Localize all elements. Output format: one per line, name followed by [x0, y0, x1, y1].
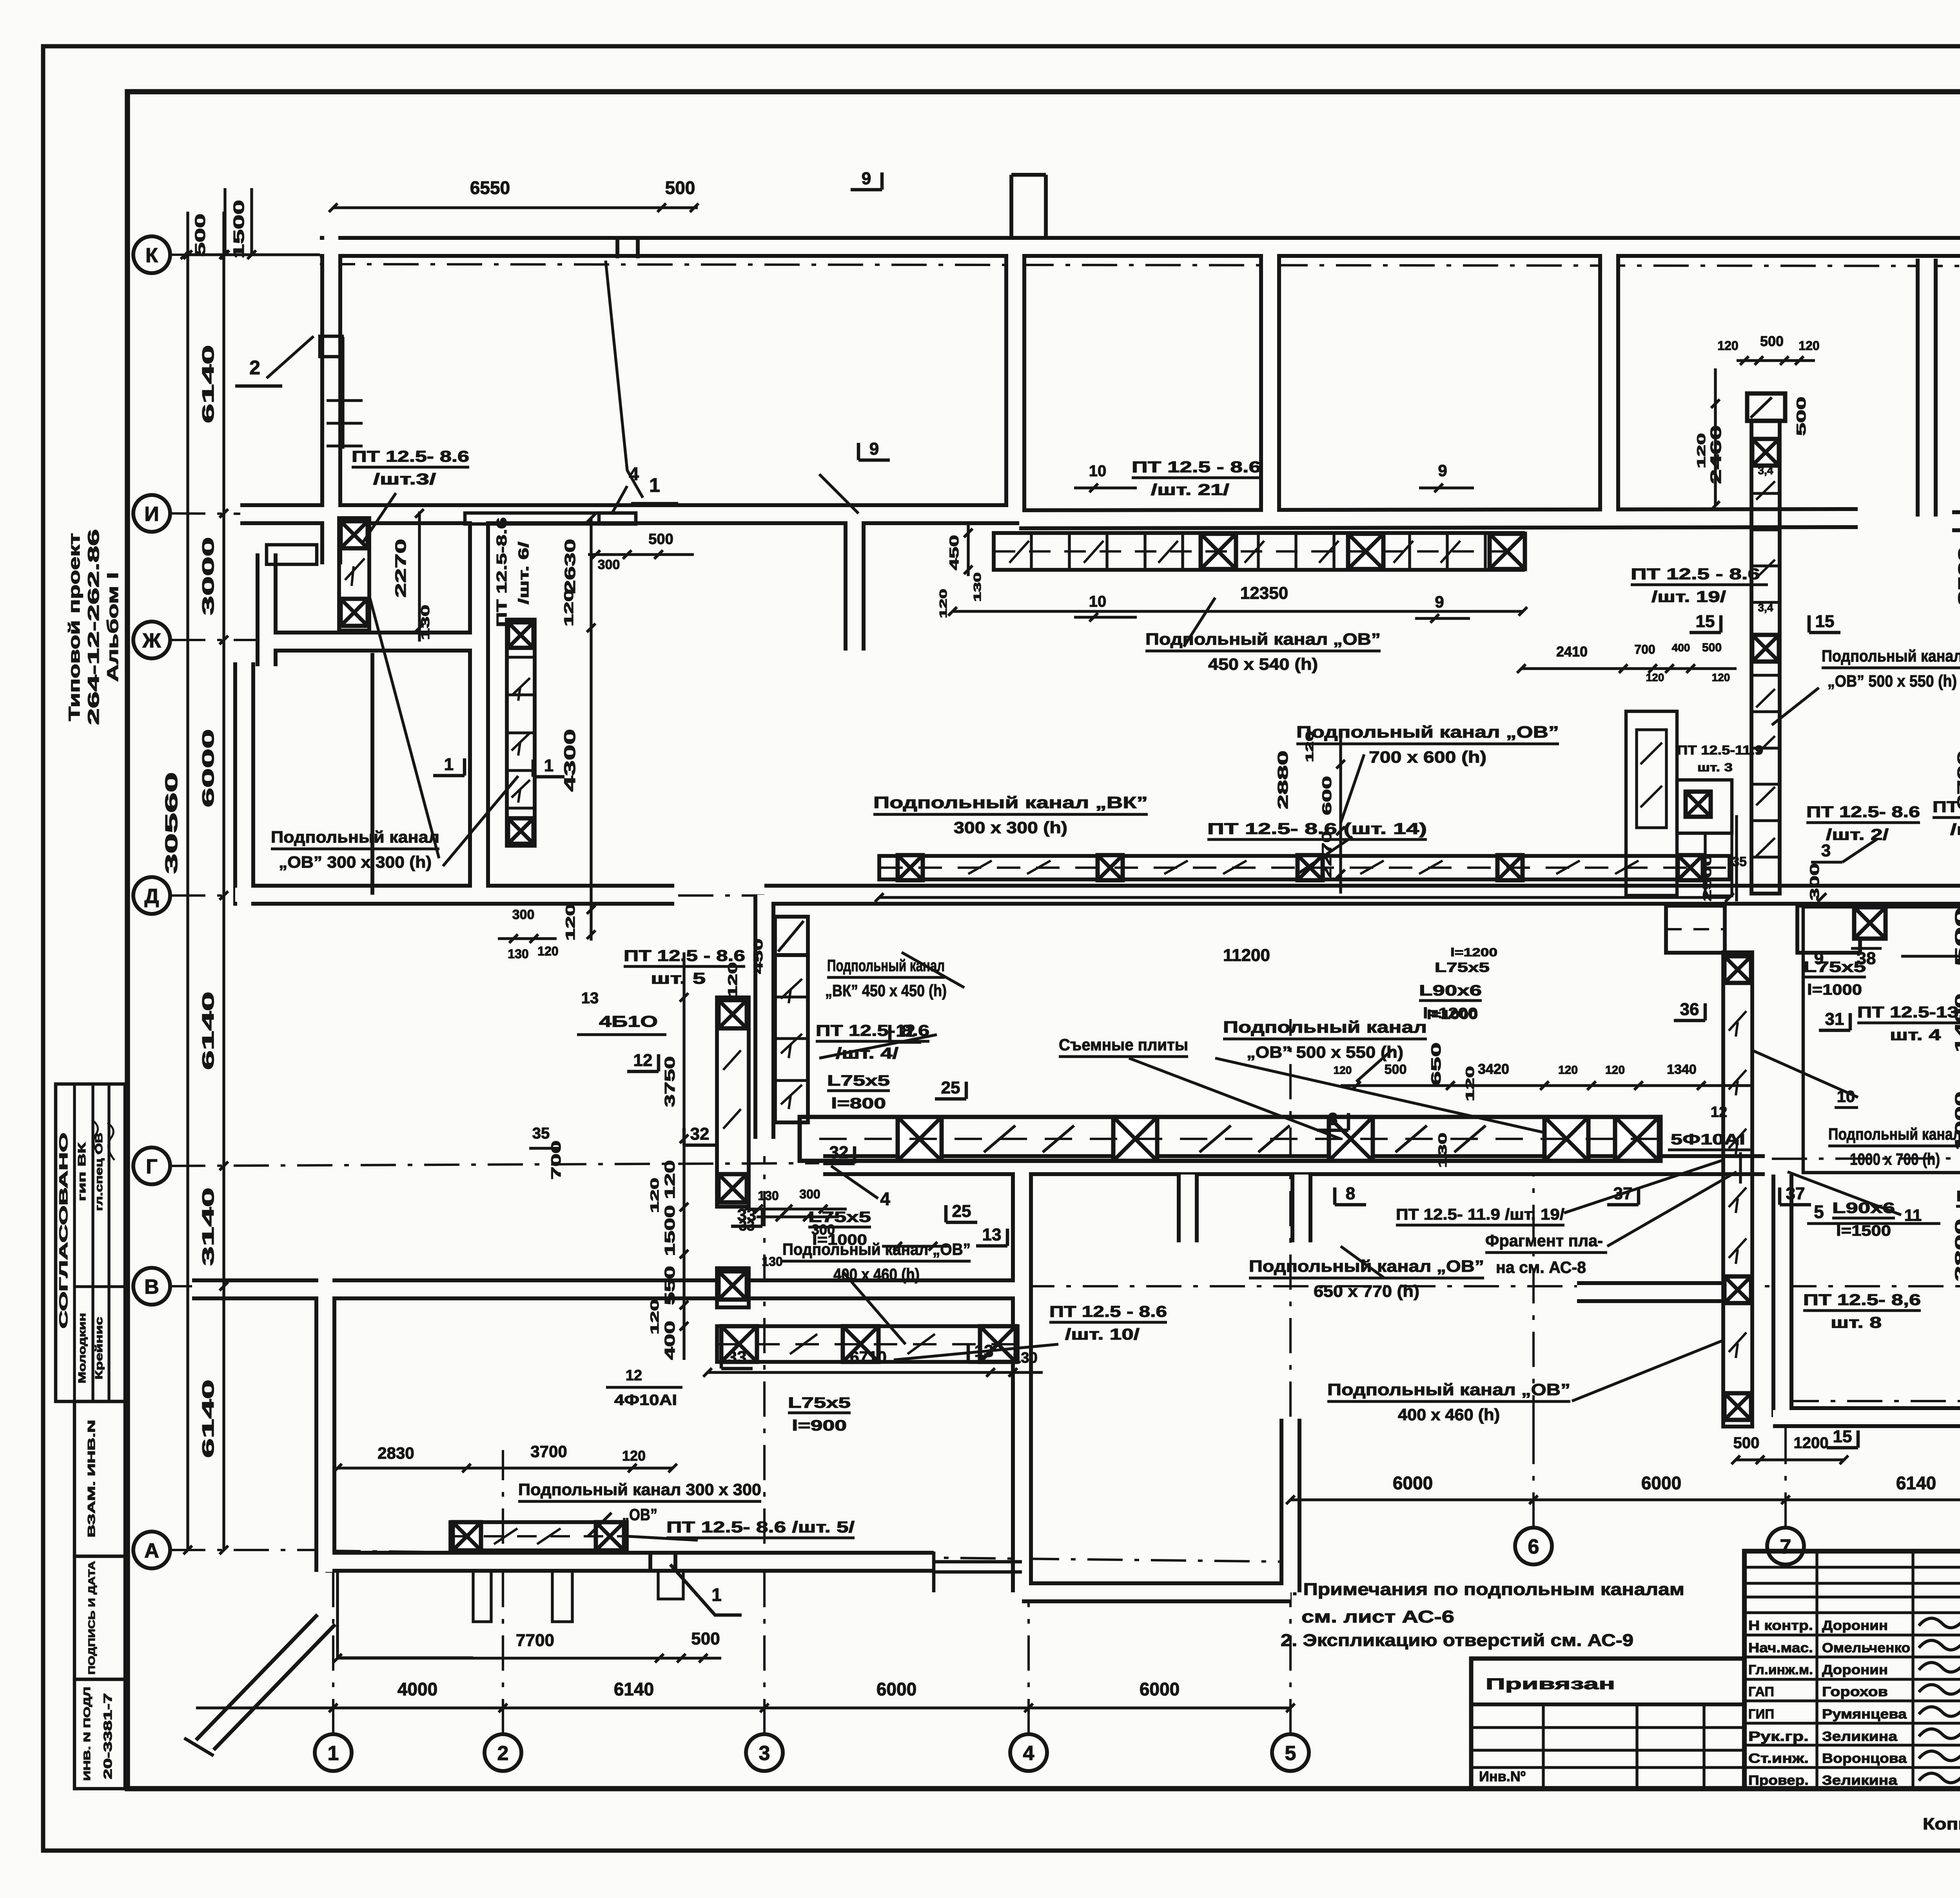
svg-text:5Ф10АI: 5Ф10АI [1671, 1131, 1745, 1148]
svg-text:„ОВ” 500 x 550 (h): „ОВ” 500 x 550 (h) [1247, 1043, 1403, 1061]
svg-text:Омельченко: Омельченко [1822, 1641, 1910, 1655]
svg-text:ПТ 12.5- 8,6: ПТ 12.5- 8,6 [1803, 1291, 1921, 1309]
svg-text:ГИП: ГИП [1748, 1707, 1774, 1722]
svg-text:35: 35 [1732, 854, 1747, 869]
svg-text:L75x5: L75x5 [1435, 960, 1490, 975]
svg-text:Воронцова: Воронцова [1822, 1751, 1907, 1766]
svg-text:Молодкин: Молодкин [76, 1313, 88, 1383]
svg-text:650 x 770 (h): 650 x 770 (h) [1314, 1282, 1419, 1300]
svg-text:шт. 5: шт. 5 [651, 970, 706, 987]
svg-text:ГАП: ГАП [1748, 1684, 1774, 1699]
svg-text:шт. 3: шт. 3 [1697, 761, 1733, 774]
svg-text:120: 120 [1695, 433, 1708, 468]
svg-text:10: 10 [1089, 593, 1107, 610]
svg-text:„ОВ”: „ОВ” [622, 1505, 657, 1524]
svg-text:130: 130 [762, 1254, 782, 1269]
svg-text:ПОДПИСЬ И ДАТА: ПОДПИСЬ И ДАТА [87, 1561, 97, 1675]
svg-text:5: 5 [1814, 1202, 1824, 1222]
svg-text:700 x 600 (h): 700 x 600 (h) [1369, 748, 1486, 766]
svg-text:L90x6: L90x6 [1419, 983, 1482, 999]
svg-text:9: 9 [1438, 461, 1447, 480]
svg-text:Подпольный канал „ОВ”: Подпольный канал „ОВ” [1145, 630, 1381, 648]
svg-text:300 x 300 (h): 300 x 300 (h) [954, 818, 1067, 837]
svg-text:120: 120 [1712, 671, 1730, 683]
svg-text:6000: 6000 [199, 729, 217, 807]
svg-text:ПТ 12.5- 8.6: ПТ 12.5- 8.6 [352, 448, 469, 465]
svg-text:12: 12 [626, 1367, 642, 1384]
svg-text:Подпольный канал „ОВ”: Подпольный канал „ОВ” [782, 1240, 971, 1258]
svg-text:Ж: Ж [142, 629, 162, 652]
svg-text:2: 2 [249, 357, 260, 379]
svg-text:/шт. 19/: /шт. 19/ [1651, 588, 1726, 605]
svg-text:120: 120 [648, 1299, 661, 1334]
svg-text:13: 13 [581, 990, 599, 1007]
svg-text:3420: 3420 [1478, 1061, 1509, 1077]
svg-text:2270: 2270 [393, 539, 409, 598]
svg-text:1500: 1500 [662, 1205, 678, 1256]
svg-text:120: 120 [1464, 1066, 1477, 1101]
svg-text:31: 31 [1825, 1010, 1844, 1029]
svg-text:36: 36 [1680, 1000, 1699, 1019]
svg-text:К: К [145, 244, 158, 267]
svg-text:120: 120 [562, 589, 576, 627]
svg-text:10: 10 [1089, 462, 1107, 480]
svg-text:Подпольный канал 300 x 300: Подпольный канал 300 x 300 [518, 1480, 761, 1499]
svg-text:8: 8 [1346, 1184, 1355, 1203]
svg-text:Румянцева: Румянцева [1822, 1707, 1907, 1722]
svg-text:4Б1О: 4Б1О [599, 1013, 658, 1030]
svg-text:1: 1 [444, 755, 454, 774]
svg-text:25: 25 [952, 1202, 971, 1221]
svg-text:7700: 7700 [516, 1631, 554, 1650]
svg-text:120: 120 [1558, 1064, 1578, 1077]
svg-text:300: 300 [598, 557, 620, 572]
svg-text:400: 400 [662, 1321, 678, 1360]
svg-text:Ст.инж.: Ст.инж. [1748, 1751, 1809, 1766]
svg-text:3,4: 3,4 [1758, 602, 1773, 614]
svg-text:ПТ 12.5 - 8.6: ПТ 12.5 - 8.6 [1631, 566, 1760, 583]
svg-text:Привязан: Привязан [1486, 1675, 1615, 1693]
svg-text:30560: 30560 [162, 772, 181, 874]
svg-text:12350: 12350 [1240, 584, 1288, 603]
svg-text:120: 120 [1798, 339, 1819, 353]
svg-text:500: 500 [1760, 333, 1784, 349]
svg-text:Д: Д [144, 885, 159, 908]
svg-text:120: 120 [537, 944, 558, 958]
svg-text:3: 3 [1821, 841, 1831, 860]
svg-text:Рук.гр.: Рук.гр. [1748, 1729, 1809, 1744]
svg-text:25: 25 [941, 1078, 960, 1097]
svg-text:l=1200: l=1200 [1450, 946, 1497, 959]
svg-text:6000: 6000 [1140, 1679, 1180, 1699]
svg-text:Горохов: Горохов [1822, 1684, 1888, 1699]
svg-text:3: 3 [759, 1742, 770, 1765]
svg-text:1. Примечания по подпольным: 1. Примечания по подпольным каналам [1281, 1580, 1684, 1599]
svg-text:130: 130 [1013, 1350, 1037, 1366]
svg-text:400: 400 [1672, 642, 1690, 654]
svg-text:l=1500: l=1500 [1836, 1223, 1891, 1239]
svg-text:3,4: 3,4 [1758, 464, 1773, 477]
svg-text:Гл.инж.м.: Гл.инж.м. [1748, 1662, 1813, 1677]
svg-text:„ВК” 450 x 450 (h): „ВК” 450 x 450 (h) [825, 981, 947, 1000]
svg-text:Нач.мас.: Нач.мас. [1748, 1641, 1813, 1655]
svg-text:120: 120 [937, 589, 949, 618]
svg-text:Фрагмент пла-: Фрагмент пла- [1485, 1231, 1603, 1250]
svg-text:120: 120 [1605, 1064, 1625, 1077]
svg-text:2. Экспликацию отверстий см.: 2. Экспликацию отверстий см. АС-9 [1281, 1631, 1633, 1650]
svg-text:12: 12 [1711, 1104, 1727, 1120]
svg-text:15: 15 [1833, 1427, 1852, 1446]
svg-text:120: 120 [1334, 1064, 1352, 1076]
svg-text:И: И [144, 503, 159, 526]
svg-text:120: 120 [648, 1178, 661, 1213]
svg-text:130: 130 [419, 605, 432, 640]
svg-text:9: 9 [869, 439, 879, 459]
svg-text:500: 500 [1733, 1434, 1760, 1452]
svg-text:6140: 6140 [199, 345, 217, 423]
svg-text:500: 500 [1794, 397, 1808, 436]
svg-text:12: 12 [633, 1051, 653, 1070]
svg-text:4: 4 [629, 464, 639, 484]
svg-text:4: 4 [880, 1189, 890, 1209]
svg-text:2500: 2500 [1956, 547, 1960, 605]
svg-text:35: 35 [532, 1125, 550, 1142]
svg-text:500: 500 [1702, 641, 1722, 654]
svg-text:1340: 1340 [1667, 1062, 1697, 1077]
svg-text:650: 650 [1429, 1042, 1444, 1086]
svg-text:500: 500 [691, 1629, 720, 1648]
svg-text:500: 500 [1385, 1062, 1407, 1077]
svg-text:450: 450 [751, 939, 765, 974]
svg-text:ПТ 12.5- 8.6 /шт. 5/: ПТ 12.5- 8.6 /шт. 5/ [666, 1519, 855, 1536]
svg-text:L75x5: L75x5 [788, 1395, 851, 1411]
svg-text:Подпольный канал „ОВ”: Подпольный канал „ОВ” [1296, 723, 1559, 741]
svg-text:20-3381-7: 20-3381-7 [102, 1693, 114, 1779]
svg-text:120: 120 [1646, 671, 1664, 683]
svg-text:L75x5: L75x5 [808, 1209, 871, 1225]
svg-text:ИНВ. N ПОДЛ: ИНВ. N ПОДЛ [82, 1687, 93, 1781]
svg-text:4300: 4300 [561, 729, 579, 792]
svg-text:Инв.Nº: Инв.Nº [1479, 1768, 1526, 1784]
svg-text:9: 9 [1435, 593, 1444, 611]
svg-text:6000: 6000 [1393, 1473, 1433, 1493]
svg-text:2: 2 [497, 1742, 509, 1765]
svg-text:/шт. 6/: /шт. 6/ [515, 542, 532, 604]
svg-text:Подпольный канал: Подпольный канал [1223, 1018, 1427, 1036]
svg-text:Подпольный канал „ОВ”: Подпольный канал „ОВ” [1327, 1380, 1570, 1399]
svg-text:Доронин: Доронин [1822, 1618, 1888, 1633]
svg-text:32: 32 [829, 1143, 849, 1162]
svg-text:ПТ 12.5- 8.6: ПТ 12.5- 8.6 [1806, 803, 1920, 821]
svg-text:/шт.3/: /шт.3/ [373, 471, 436, 488]
svg-text:„ОВ” 500 x 550 (h): „ОВ” 500 x 550 (h) [1828, 672, 1957, 690]
svg-text:500: 500 [192, 214, 208, 257]
svg-text:/шт. 21/: /шт. 21/ [1151, 481, 1229, 499]
svg-text:В: В [144, 1276, 159, 1298]
svg-text:3140: 3140 [199, 1187, 217, 1266]
svg-text:ПТ 12.5- 11.9 /шт. 19/: ПТ 12.5- 11.9 /шт. 19/ [1396, 1206, 1564, 1223]
svg-text:11: 11 [1904, 1206, 1922, 1224]
svg-text:9: 9 [1814, 949, 1824, 968]
svg-text:450 x 540 (h): 450 x 540 (h) [1208, 655, 1318, 673]
svg-text:300: 300 [1808, 863, 1822, 901]
svg-text:13: 13 [982, 1225, 1002, 1244]
svg-text:Альбом I: Альбом I [104, 572, 122, 682]
svg-text:1: 1 [328, 1742, 339, 1765]
svg-text:l=1000: l=1000 [1427, 1008, 1478, 1022]
svg-text:450: 450 [947, 535, 961, 570]
svg-text:ПТ 12.5 - 8.6: ПТ 12.5 - 8.6 [1933, 798, 1960, 816]
svg-text:1500: 1500 [231, 200, 247, 259]
svg-text:300: 300 [512, 907, 535, 922]
svg-text:Провер.: Провер. [1748, 1773, 1809, 1788]
svg-text:Зеликина: Зеликина [1822, 1729, 1898, 1744]
svg-text:130: 130 [758, 1189, 779, 1203]
svg-text:Подпольный канал „ВК”: Подпольный канал „ВК” [873, 793, 1148, 812]
svg-text:шт. 4: шт. 4 [1890, 1026, 1941, 1044]
svg-text:L75x5: L75x5 [1956, 1188, 1960, 1205]
svg-text:см. лист АС-6: см. лист АС-6 [1301, 1607, 1454, 1626]
svg-text:2500: 2500 [1701, 854, 1714, 901]
svg-text:Крейнис: Крейнис [93, 1317, 105, 1380]
svg-text:ПТ 12.5- 8.6 (шт. 14): ПТ 12.5- 8.6 (шт. 14) [1207, 820, 1427, 838]
svg-text:ПТ 12.5-8.6: ПТ 12.5-8.6 [494, 517, 510, 627]
svg-text:33: 33 [737, 1206, 757, 1225]
svg-text:Типовой проект: Типовой проект [66, 533, 83, 721]
svg-text:Подпольный канал: Подпольный канал [1822, 647, 1960, 665]
svg-text:ВЗАМ. ИНВ.N: ВЗАМ. ИНВ.N [85, 1420, 97, 1537]
svg-text:2800: 2800 [1953, 1219, 1960, 1282]
svg-text:/шт. 4/: /шт. 4/ [1950, 821, 1960, 838]
svg-text:11200: 11200 [1223, 946, 1270, 965]
svg-text:шт. 8: шт. 8 [1831, 1314, 1882, 1331]
svg-text:2410: 2410 [1556, 644, 1588, 660]
svg-text:120: 120 [622, 1448, 646, 1464]
svg-text:5: 5 [1285, 1742, 1296, 1765]
svg-text:37: 37 [1786, 1184, 1805, 1203]
svg-text:Копировал: Копировал [1923, 1815, 1960, 1833]
svg-text:500: 500 [648, 531, 673, 547]
svg-text:ПТ 12.5 - 8.6: ПТ 12.5 - 8.6 [1132, 459, 1261, 476]
svg-text:на см. АС-8: на см. АС-8 [1496, 1258, 1586, 1276]
svg-text:ПТ 12.5-13.13: ПТ 12.5-13.13 [1857, 1004, 1960, 1021]
svg-text:1: 1 [544, 756, 554, 775]
svg-text:15: 15 [1696, 612, 1715, 631]
svg-text:130: 130 [1436, 1133, 1449, 1168]
svg-text:500: 500 [665, 178, 695, 198]
svg-text:1: 1 [711, 1584, 722, 1605]
svg-text:120: 120 [1717, 339, 1738, 353]
svg-text:1200: 1200 [1794, 1434, 1829, 1452]
svg-text:700: 700 [1634, 642, 1655, 656]
svg-text:2630: 2630 [562, 539, 579, 594]
svg-text:6550: 6550 [470, 178, 510, 198]
svg-text:L75x5: L75x5 [827, 1073, 890, 1089]
svg-text:А: А [144, 1539, 159, 1562]
svg-text:2830: 2830 [377, 1444, 414, 1462]
svg-text:6140: 6140 [199, 1380, 217, 1458]
svg-text:Зеликина: Зеликина [1822, 1773, 1898, 1788]
svg-text:120: 120 [662, 1160, 678, 1199]
svg-text:6140: 6140 [199, 992, 217, 1070]
svg-text:600: 600 [1320, 776, 1334, 815]
svg-text:264-12-262.86: 264-12-262.86 [85, 529, 102, 725]
svg-text:6710: 6710 [850, 1348, 886, 1366]
svg-text:33: 33 [728, 1348, 747, 1367]
svg-text:СОГЛАСОВАНО: СОГЛАСОВАНО [57, 1133, 70, 1329]
svg-text:/шт. 10/: /шт. 10/ [1065, 1326, 1140, 1343]
svg-text:120: 120 [563, 904, 577, 941]
svg-text:4Ф10АI: 4Ф10АI [614, 1392, 677, 1409]
svg-text:130: 130 [508, 947, 528, 961]
svg-text:6: 6 [1528, 1535, 1539, 1558]
svg-text:3700: 3700 [530, 1442, 567, 1461]
svg-text:4: 4 [1023, 1742, 1034, 1765]
svg-text:ПТ 12.5 - 8.6: ПТ 12.5 - 8.6 [624, 947, 745, 964]
svg-text:l=900: l=900 [792, 1418, 847, 1434]
svg-text:6140: 6140 [1896, 1473, 1936, 1493]
svg-text:130: 130 [971, 573, 983, 602]
svg-text:гип ВК: гип ВК [76, 1142, 88, 1201]
svg-text:38: 38 [1857, 949, 1876, 968]
svg-text:l=800: l=800 [831, 1095, 886, 1112]
svg-text:1: 1 [649, 474, 660, 496]
svg-text:400 x 460 (h): 400 x 460 (h) [1398, 1405, 1500, 1424]
svg-text:ПТ 12.5-11.9: ПТ 12.5-11.9 [1677, 743, 1763, 757]
svg-text:300: 300 [799, 1187, 820, 1201]
svg-text:ПТ 12.5 - 8.6: ПТ 12.5 - 8.6 [1049, 1303, 1167, 1320]
svg-text:32: 32 [690, 1124, 710, 1144]
svg-text:15: 15 [1815, 612, 1835, 631]
svg-text:6000: 6000 [1641, 1473, 1681, 1493]
svg-text:/шт. 2/: /шт. 2/ [1826, 826, 1889, 843]
svg-text:6000: 6000 [877, 1679, 916, 1699]
svg-text:700: 700 [549, 1140, 564, 1180]
svg-text:l=1000: l=1000 [1807, 982, 1862, 998]
svg-text:l=1000: l=1000 [812, 1232, 867, 1248]
svg-text:Доронин: Доронин [1822, 1662, 1888, 1677]
svg-text:4000: 4000 [397, 1679, 437, 1699]
svg-text:1000 x 700 (h): 1000 x 700 (h) [1850, 1150, 1940, 1168]
svg-text:3750: 3750 [662, 1056, 678, 1107]
svg-text:2880: 2880 [1275, 750, 1291, 809]
svg-text:9: 9 [862, 169, 871, 188]
svg-text:Н контр.: Н контр. [1748, 1618, 1813, 1633]
svg-text:12: 12 [896, 1021, 915, 1041]
svg-text:7: 7 [1780, 1535, 1791, 1558]
svg-text:Г: Г [146, 1155, 157, 1178]
svg-text:6140: 6140 [614, 1679, 654, 1699]
svg-text:Съемные плиты: Съемные плиты [1059, 1035, 1188, 1054]
svg-text:3000: 3000 [199, 537, 217, 615]
svg-text:8: 8 [1328, 1109, 1338, 1129]
svg-text:„ОВ” 300 x 300 (h): „ОВ” 300 x 300 (h) [279, 853, 432, 871]
svg-text:550: 550 [662, 1266, 678, 1305]
svg-text:Подпольный канал: Подпольный канал [1828, 1125, 1960, 1143]
svg-text:Подпольный канал: Подпольный канал [271, 828, 439, 846]
